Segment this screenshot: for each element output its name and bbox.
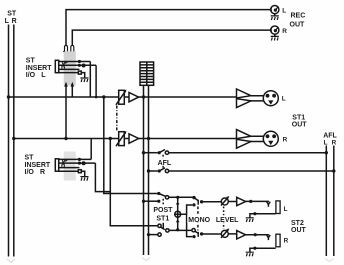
- svg-text:ST: ST: [25, 155, 35, 162]
- gang link faders (dash): [116, 106, 118, 132]
- svg-text:ST: ST: [7, 11, 17, 18]
- level pot L (circle with arrow): [221, 198, 228, 205]
- insert jack L REC-R switch contact hook: [71, 45, 74, 51]
- wire insert L return tip (x=90.3) down to L bus: [89, 62, 91, 98]
- fader ST L (variable resistor): [119, 90, 125, 104]
- wire ST2 L line to level pot: [202, 201, 221, 203]
- switch MONO R common contact circle: [192, 229, 195, 232]
- label AFL small: [157, 159, 172, 166]
- label XLR L: [282, 95, 286, 102]
- switch MONO R alt contact dot: [192, 235, 195, 238]
- svg-text:L: L: [282, 7, 286, 14]
- svg-text:OUT: OUT: [290, 22, 306, 29]
- label jack R: [284, 238, 289, 245]
- wire R jack ring out: down and across to POST ST1 R feed: [95, 163, 110, 192]
- ground under RCA L: [274, 14, 276, 16]
- label ST INSERT I/O L: [26, 58, 52, 79]
- wire REC R line: [72, 30, 270, 45]
- svg-text:L: L: [282, 95, 286, 102]
- insert jack R tip contact row: [59, 158, 91, 160]
- ghost chevrons below center verticals: [142, 258, 150, 261]
- label ST2 OUT: [291, 220, 307, 234]
- node dot after ST2 R amp: [254, 233, 257, 236]
- wire L bus horizontal y=97: [9, 96, 237, 98]
- gang link level pots: [223, 207, 225, 230]
- connector RCA REC OUT R: [271, 26, 279, 34]
- wire ST R bus vertical: [13, 25, 15, 257]
- svg-text:MONO: MONO: [188, 217, 210, 224]
- wire meter leg L long vertical: [143, 85, 145, 255]
- node dots ring row: [78, 64, 81, 67]
- svg-text:OUT: OUT: [292, 122, 308, 129]
- wire driver L to XLR: [249, 96, 263, 101]
- insert jack L tip spring V: [62, 62, 64, 65]
- insert jack L sleeve row: [59, 72, 79, 74]
- wire AFL R vertical: [333, 146, 335, 257]
- svg-text:REC: REC: [291, 13, 306, 20]
- switch MONO L lever: [194, 198, 198, 201]
- insert jack R ring contact row: [59, 162, 96, 164]
- svg-text:ST1: ST1: [292, 115, 305, 122]
- label AFL L R: [323, 133, 337, 147]
- switch POST ST1 R pole bar: [162, 223, 164, 228]
- ghost chevrons below AFL verticals: [325, 259, 334, 262]
- node ST label: [5, 11, 17, 25]
- switch POST ST1 L lever: [159, 194, 166, 197]
- insert jack L tip contact row: [59, 61, 91, 63]
- phone jack ST2 L body: [276, 201, 280, 214]
- switch MONO L pole bar: [197, 200, 199, 205]
- svg-text:AFL: AFL: [158, 160, 172, 167]
- wire sleeve to ground: [81, 73, 84, 78]
- node meter R dot on R bus: [147, 137, 150, 140]
- op-amp ST2 R: [237, 231, 246, 239]
- connector RCA REC OUT L: [271, 6, 279, 14]
- ghost continuation chevrons below ST L R: [7, 259, 15, 263]
- svg-text:L: L: [41, 72, 46, 79]
- insert jack R gray band: [64, 152, 76, 181]
- switch MONO L common dot: [192, 196, 195, 199]
- switch AFL L: [142, 151, 145, 154]
- driver ST1 L (double triangle): [237, 89, 251, 108]
- svg-text:R: R: [40, 169, 45, 176]
- label POST ST1: [153, 205, 174, 212]
- svg-text:L: L: [284, 206, 288, 213]
- wire REC L line: [66, 10, 271, 46]
- switch MONO R lever: [195, 231, 198, 233]
- meter box: [140, 62, 154, 85]
- fader ST R (variable resistor): [119, 132, 125, 146]
- svg-text:R: R: [284, 238, 289, 245]
- svg-text:R: R: [12, 18, 17, 25]
- wire ST2 L line after switch: [169, 196, 194, 198]
- switch AFL R: [147, 169, 150, 172]
- svg-text:R: R: [282, 28, 287, 35]
- svg-text:I/O: I/O: [26, 72, 36, 79]
- label REC OUT: [282, 7, 305, 35]
- insert jack L third contact row: [59, 68, 80, 70]
- wire insert L ring (x=96.1) down to L bus: [95, 65, 97, 97]
- insert jack L sleeve square: [78, 71, 81, 74]
- switch MONO R pole bar: [197, 232, 199, 237]
- wire AFL L row to AFL L bus: [169, 152, 327, 154]
- mono summing node circle plus: [177, 197, 179, 211]
- label XLR R: [283, 136, 288, 143]
- wire ST2 R line to level pot: [202, 233, 221, 235]
- wire mono node output to both mono switch contacts: [181, 205, 192, 237]
- wire ST2 R line after switch: [169, 229, 194, 231]
- label LEVEL: [215, 215, 238, 222]
- label MONO: [187, 215, 212, 222]
- connector XLR ST1 OUT R: [263, 131, 278, 146]
- wire R sleeve to ground: [81, 171, 84, 176]
- node MONO junction bottom: [176, 228, 179, 231]
- ground insert jack R: [80, 177, 88, 181]
- wire L post-fader stub to switch: [144, 200, 159, 202]
- svg-text:INSERT: INSERT: [25, 162, 51, 169]
- phone jack ST2 R tip contact: [267, 235, 271, 240]
- insert jack L body: [55, 60, 58, 72]
- svg-text:ST2: ST2: [291, 220, 304, 227]
- svg-text:R: R: [283, 136, 288, 143]
- svg-text:LEVEL: LEVEL: [216, 217, 239, 224]
- node ST2 L output dot: [200, 200, 203, 203]
- svg-text:OUT: OUT: [291, 227, 307, 234]
- insert jack L ring contact row: [59, 64, 96, 66]
- node dot tip row: [78, 60, 81, 63]
- wire L post-insert feed down to POST ST1 L: [102, 95, 105, 98]
- node dots R ring row: [78, 162, 81, 165]
- arrow feed from L bus up into L jack (REC L pickup): [71, 86, 73, 97]
- connector XLR ST1 OUT L: [263, 91, 278, 106]
- insert jack L gray band: [64, 51, 76, 85]
- op-amp ST R: [129, 134, 139, 144]
- switch POST ST1 R lever: [161, 227, 165, 229]
- phone jack ST2 R body: [276, 234, 280, 247]
- node ST2 R output dot: [200, 232, 203, 235]
- wire driver R to XLR: [249, 136, 263, 141]
- wire amp R to jack: [229, 233, 269, 236]
- ground insert jack L: [80, 78, 88, 82]
- switch POST ST1 R output contact circle: [166, 229, 169, 232]
- wire AFL L vertical: [325, 146, 327, 257]
- wire ST L bus vertical: [8, 25, 10, 257]
- wire jack L sleeve to ground: [250, 214, 276, 218]
- insert jack R body: [55, 159, 58, 171]
- gang link AFL switches: [162, 155, 164, 169]
- node MONO junction top: [176, 196, 179, 199]
- wire R post-fader stub: [149, 234, 158, 236]
- gang link POST ST1 switches: [162, 199, 164, 225]
- wire AFL R row to AFL R bus: [169, 170, 334, 172]
- svg-text:ST: ST: [26, 58, 36, 65]
- wire R bus horizontal y=138.5: [14, 138, 237, 140]
- arrow feed from R bus up through L jack area (REC R pickup): [65, 86, 67, 138]
- switch MONO L alt contact dot: [192, 203, 195, 206]
- insert jack R sleeve square: [78, 170, 81, 173]
- node dot after ST2 L amp: [249, 200, 252, 203]
- svg-text:ST1: ST1: [156, 215, 169, 222]
- switch POST ST1 R contact circle upper: [158, 224, 161, 227]
- phone jack ST2 L tip contact: [267, 202, 271, 207]
- svg-text:I/O: I/O: [25, 169, 35, 176]
- op-amp ST L: [129, 92, 139, 102]
- wire R bus down into R jack tip row: [90, 139, 92, 160]
- wire R pre-fader feed from R bus down to POST ST1 R: [109, 137, 112, 140]
- wire meter leg R long vertical: [148, 85, 150, 255]
- switch POST ST1 L : common dot on feed line: [157, 192, 160, 195]
- label ST1 OUT: [292, 115, 308, 129]
- svg-text:L: L: [324, 139, 328, 146]
- switch POST ST1 L contact circle: [165, 196, 168, 199]
- insert jack R tip spring V: [62, 160, 64, 163]
- svg-text:L: L: [5, 18, 10, 25]
- node tap ST L at y97: [7, 95, 10, 98]
- label ST INSERT I/O R: [25, 155, 51, 176]
- svg-text:POST: POST: [153, 207, 173, 214]
- ground under RCA R: [274, 34, 276, 36]
- insert jack L ring hook: [62, 66, 64, 69]
- node tap ST R at y138.5: [12, 137, 15, 140]
- svg-text:INSERT: INSERT: [26, 65, 52, 72]
- wire amp L to jack: [229, 200, 269, 202]
- gang link MONO switches: [197, 207, 199, 231]
- node dot R tip row: [78, 158, 81, 161]
- node dot on R bus at x66: [64, 137, 67, 140]
- svg-text:R: R: [332, 139, 337, 146]
- insert jack R third contact row: [59, 167, 80, 169]
- op-amp ST2 L: [237, 197, 246, 205]
- level pot R: [221, 230, 228, 237]
- wire jack R sleeve to ground: [250, 248, 276, 252]
- label jack L: [284, 206, 288, 213]
- insert jack R sleeve row: [59, 170, 79, 172]
- insert jack L REC-L switch contact hook: [63, 45, 67, 51]
- node meter L dot on L bus: [142, 95, 145, 98]
- insert jack R ring hook: [62, 164, 64, 167]
- driver ST1 R (double triangle): [237, 130, 251, 149]
